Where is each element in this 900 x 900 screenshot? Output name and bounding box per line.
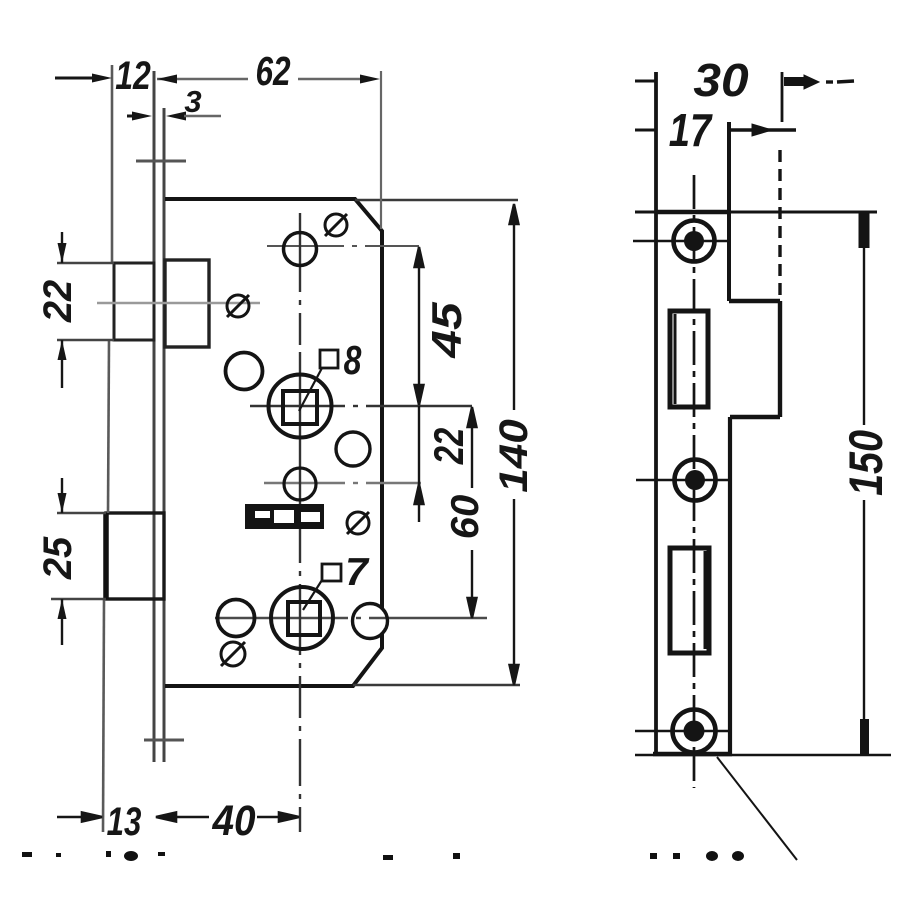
svg-text:62: 62 — [255, 48, 290, 94]
svg-text:13: 13 — [107, 799, 142, 844]
svg-text:17: 17 — [669, 105, 714, 156]
svg-text:12: 12 — [115, 53, 151, 98]
svg-text:40: 40 — [212, 796, 256, 844]
svg-text:140: 140 — [491, 419, 536, 493]
svg-text:60: 60 — [444, 495, 487, 540]
svg-text:25: 25 — [36, 536, 80, 581]
svg-text:7: 7 — [345, 551, 370, 594]
svg-text:22: 22 — [36, 280, 80, 324]
svg-text:22: 22 — [425, 428, 472, 465]
svg-text:3: 3 — [184, 84, 201, 119]
svg-text:45: 45 — [424, 302, 470, 359]
svg-text:8: 8 — [344, 337, 362, 383]
svg-text:150: 150 — [841, 430, 893, 496]
svg-text:30: 30 — [693, 56, 749, 107]
